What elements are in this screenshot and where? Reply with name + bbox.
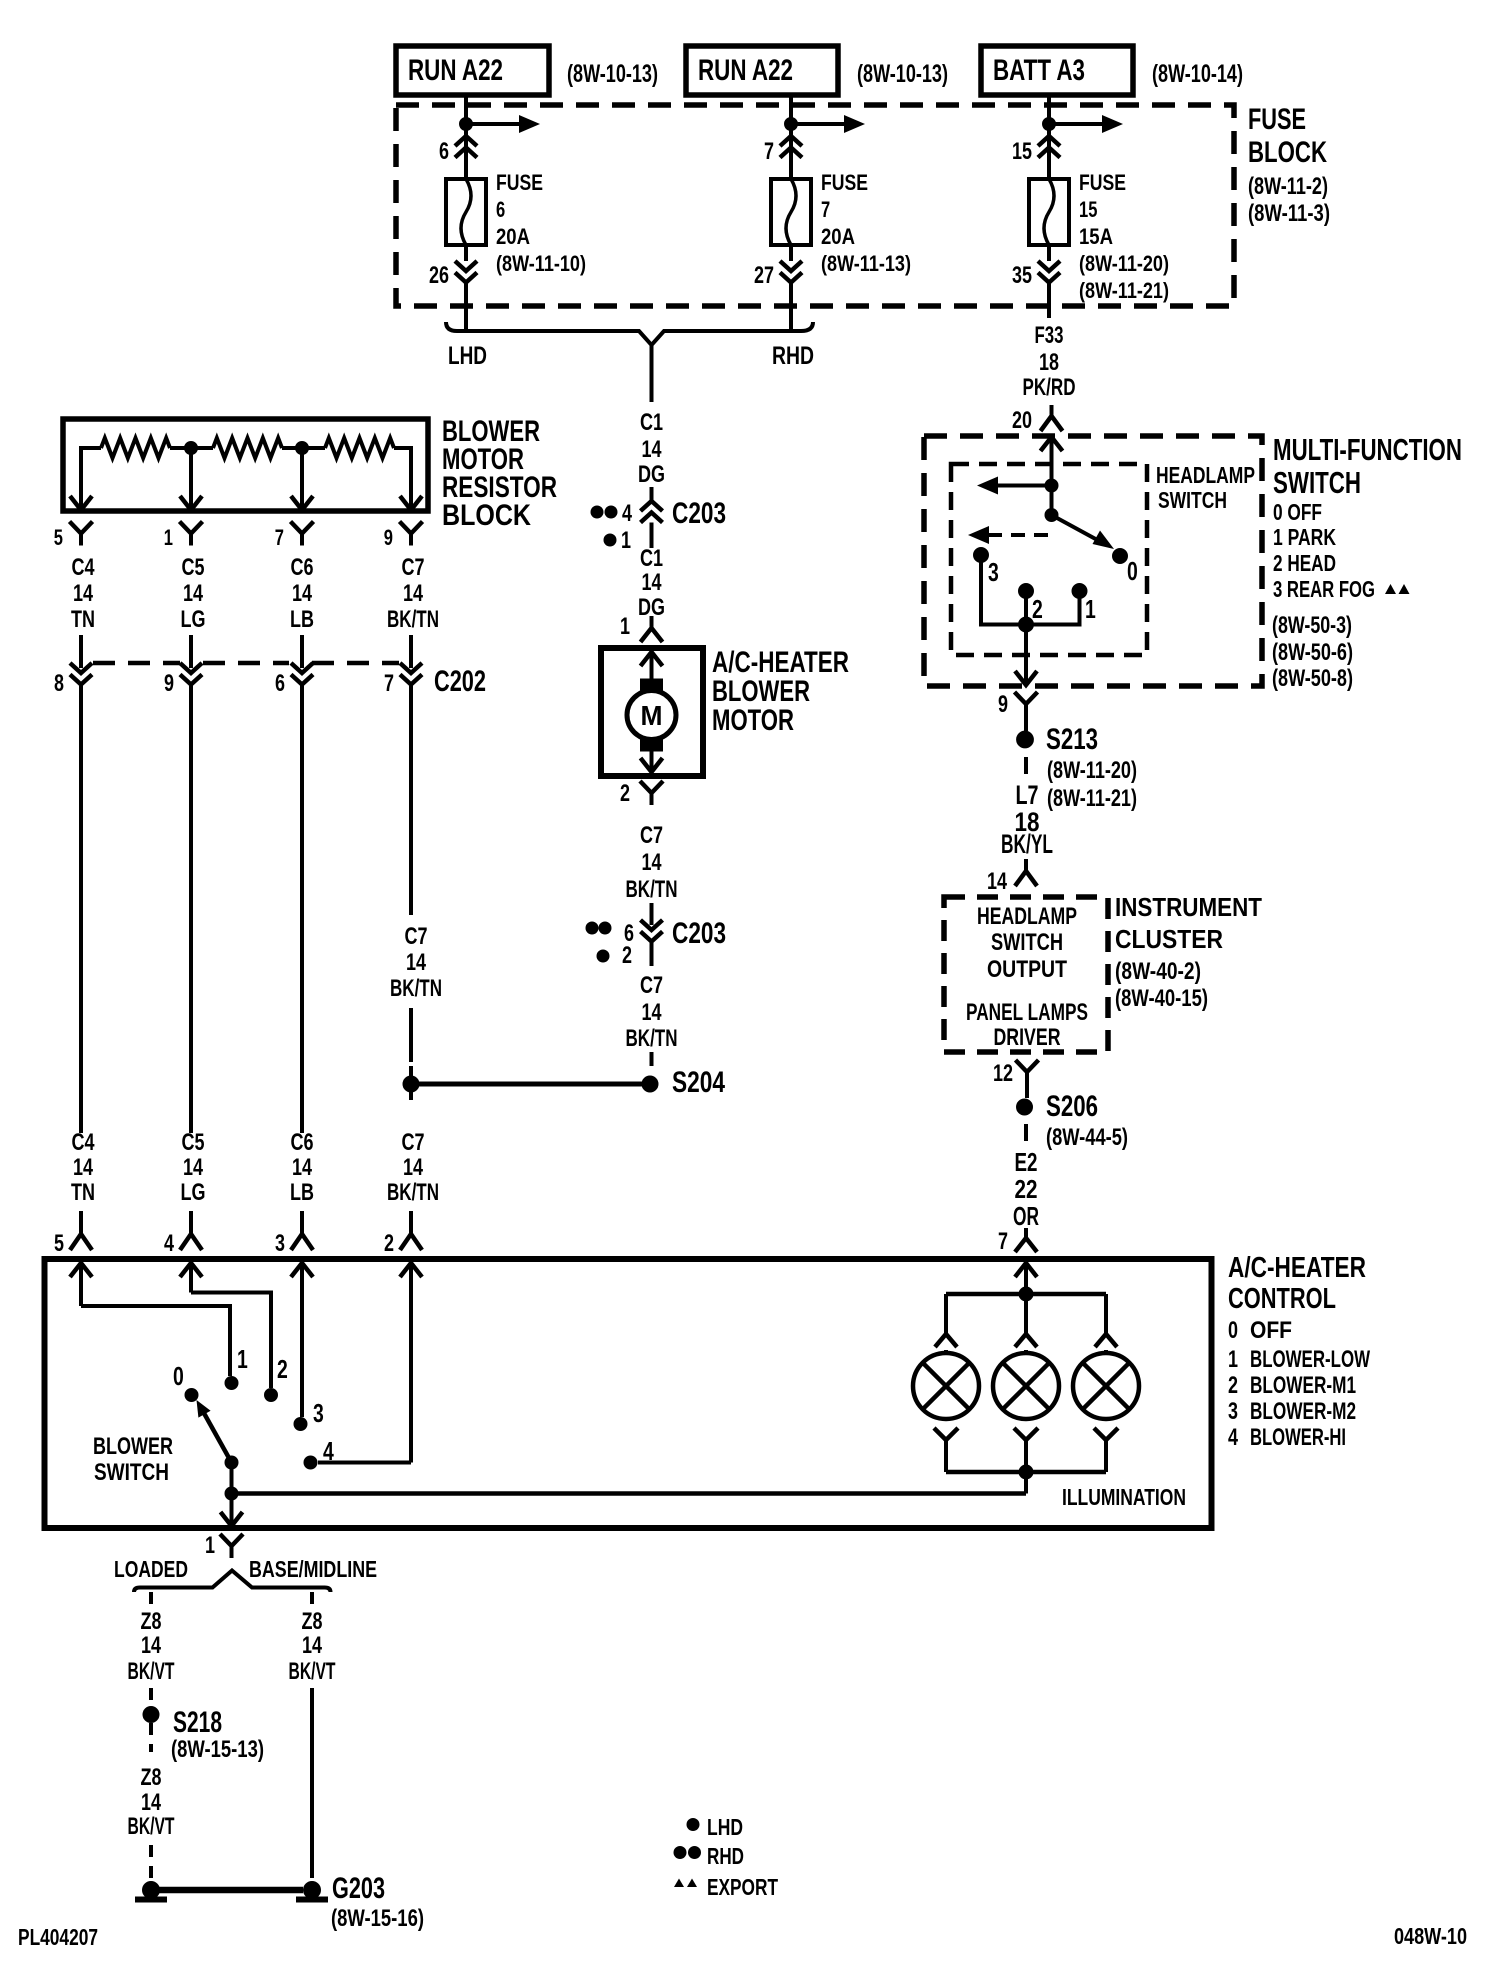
illumination lamp 1	[913, 1353, 979, 1419]
svg-text:FUSE: FUSE	[1248, 103, 1306, 136]
contact 3	[974, 548, 989, 563]
svg-text:2: 2	[1032, 594, 1043, 624]
svg-text:14: 14	[642, 849, 662, 876]
fuse block enclosure	[396, 105, 1234, 306]
svg-text:PANEL LAMPS: PANEL LAMPS	[966, 999, 1088, 1026]
connector pin 27 (fuse 7 bottom)	[780, 261, 802, 271]
pin 14 connector at instrument cluster	[1024, 859, 1028, 871]
svg-text:SWITCH: SWITCH	[94, 1459, 169, 1486]
svg-text:14: 14	[73, 580, 93, 607]
wire contact 2 to junction	[1024, 598, 1028, 625]
svg-text:7: 7	[998, 1228, 1008, 1255]
motor return arrow	[650, 751, 654, 772]
control entry arrow pin 7	[1015, 1263, 1037, 1277]
connector pin 26 (fuse 6 bottom)	[455, 261, 477, 271]
svg-text:EXPORT: EXPORT	[707, 1874, 778, 1900]
svg-text:(8W-40-15): (8W-40-15)	[1115, 985, 1208, 1012]
svg-text:5: 5	[54, 1230, 64, 1257]
resistor element 1	[101, 438, 170, 458]
svg-text:(8W-15-13): (8W-15-13)	[171, 1736, 264, 1763]
wire feed into fuse 6	[464, 95, 468, 179]
feed-through arrow at fuse 6	[466, 122, 521, 126]
blower switch contact 1	[225, 1377, 238, 1390]
control entry arrow pin 5	[70, 1263, 92, 1277]
svg-text:6: 6	[496, 197, 505, 222]
illumination lamp 3	[1073, 1353, 1139, 1419]
svg-text:C7: C7	[402, 1129, 425, 1156]
svg-text:0: 0	[1127, 556, 1138, 586]
wire TN column down	[79, 685, 83, 1134]
wire BK/TN column upper	[409, 685, 413, 916]
svg-text:BLOWER-LOW: BLOWER-LOW	[1250, 1346, 1370, 1373]
connector C202 pin 8	[70, 663, 92, 673]
power feed box RUN A22 (right)	[686, 46, 838, 95]
svg-text:2 HEAD: 2 HEAD	[1273, 550, 1336, 576]
svg-text:15: 15	[1012, 138, 1032, 165]
svg-text:RHD: RHD	[707, 1843, 744, 1869]
motor M symbol	[627, 691, 676, 740]
svg-text:RUN A22: RUN A22	[408, 54, 503, 87]
contact 0	[1113, 549, 1128, 564]
svg-text:3: 3	[988, 557, 999, 587]
blower switch contact 2	[265, 1389, 278, 1402]
svg-text:(8W-11-20): (8W-11-20)	[1079, 251, 1169, 276]
wire base/midline branch	[310, 1592, 314, 1604]
svg-text:C6: C6	[291, 554, 314, 581]
svg-text:PL404207: PL404207	[18, 1924, 98, 1950]
splice node above fuse 6	[460, 118, 473, 131]
svg-text:LHD: LHD	[448, 342, 487, 370]
junction node at S204 line	[403, 1076, 419, 1092]
wire LG column down	[189, 685, 193, 1134]
svg-text:BLOCK: BLOCK	[442, 499, 531, 532]
wire pin2 to contact 4	[318, 1461, 411, 1465]
blower motor resistor block box	[63, 419, 428, 511]
svg-text:C1: C1	[640, 545, 663, 572]
svg-text:2: 2	[1228, 1372, 1238, 1399]
svg-text:C7: C7	[640, 972, 663, 999]
svg-text:S213: S213	[1046, 723, 1098, 756]
wire contact 3 to junction	[981, 562, 1019, 625]
svg-text:LB: LB	[290, 606, 314, 633]
svg-text:LG: LG	[181, 1179, 206, 1206]
wire (dashed) below S206	[1024, 1124, 1028, 1141]
svg-text:(8W-10-13): (8W-10-13)	[857, 60, 948, 88]
svg-text:12: 12	[993, 1060, 1013, 1087]
wire (dashed) below S218	[149, 1723, 153, 1752]
svg-text:7: 7	[384, 670, 394, 697]
svg-text:L7: L7	[1016, 780, 1039, 810]
fuse 7 (20A)	[771, 179, 811, 245]
pin 5 connector (resistor block)	[70, 522, 82, 534]
headlamp switch inner box	[951, 464, 1147, 655]
svg-text:4: 4	[323, 1436, 334, 1466]
svg-text:14: 14	[302, 1632, 322, 1659]
svg-text:C202: C202	[434, 665, 486, 698]
svg-text:TN: TN	[71, 606, 95, 633]
wire pin5 to contact 1	[81, 1306, 230, 1376]
svg-text:OR: OR	[1013, 1201, 1039, 1231]
svg-text:BK/VT: BK/VT	[289, 1658, 336, 1685]
svg-text:20A: 20A	[496, 224, 530, 249]
svg-text:2: 2	[622, 942, 632, 969]
svg-text:6: 6	[275, 670, 285, 697]
wire into lower C203	[650, 903, 654, 925]
lamp feed junction	[1019, 1287, 1033, 1301]
svg-text:C5: C5	[182, 554, 205, 581]
contact 1	[1072, 584, 1087, 599]
wire (dashed) into S204	[650, 1052, 654, 1068]
svg-text:Z8: Z8	[141, 1764, 162, 1791]
svg-text:BK/TN: BK/TN	[387, 1179, 439, 1206]
wire out of fuse 7	[789, 245, 793, 261]
lamp 3 return	[1094, 1428, 1106, 1440]
switch node (headlamp feed)	[1045, 479, 1058, 492]
svg-text:Z8: Z8	[141, 1608, 162, 1635]
wire (dashed) loaded branch	[149, 1592, 153, 1604]
resistor element 3	[325, 438, 394, 458]
svg-text:27: 27	[754, 262, 774, 289]
svg-text:BK/YL: BK/YL	[1001, 829, 1053, 859]
svg-text:7: 7	[821, 197, 830, 222]
ground link wire	[159, 1887, 303, 1894]
svg-text:(8W-50-3): (8W-50-3)	[1272, 612, 1352, 639]
feed-through arrow at fuse 15	[1049, 122, 1104, 126]
blower switch output arrow	[221, 1512, 243, 1526]
svg-text:M: M	[641, 700, 663, 731]
svg-text:C1: C1	[640, 409, 663, 436]
svg-text:BLOWER-HI: BLOWER-HI	[1250, 1424, 1346, 1451]
svg-text:BK/TN: BK/TN	[387, 606, 439, 633]
svg-text:14: 14	[642, 436, 662, 463]
motor brush (top)	[641, 679, 663, 691]
svg-text:G203: G203	[332, 1872, 385, 1905]
svg-text:14: 14	[183, 580, 203, 607]
svg-text:RHD: RHD	[772, 342, 814, 370]
svg-text:3: 3	[313, 1398, 324, 1428]
svg-text:S204: S204	[672, 1066, 725, 1099]
svg-text:BLOWER-M2: BLOWER-M2	[1250, 1398, 1356, 1425]
connector C203 pins 6/2	[641, 920, 663, 930]
wire LB column down	[300, 685, 304, 1134]
connector pin 6 (fuse 6 top)	[455, 136, 477, 146]
svg-text:14: 14	[406, 949, 426, 976]
svg-text:7: 7	[764, 138, 774, 165]
pin 2 connector at blower motor	[640, 781, 652, 793]
resistor tap wires	[81, 446, 101, 450]
wire (dashed) to ground G203 left	[149, 1845, 153, 1878]
blower switch contact 0	[185, 1389, 198, 1402]
contact 2	[1019, 584, 1034, 599]
lamp 1 feed	[944, 1294, 948, 1336]
svg-text:(8W-11-21): (8W-11-21)	[1047, 785, 1137, 812]
instrument cluster enclosure	[944, 897, 1108, 1052]
power feed box RUN A22 (left)	[396, 46, 549, 95]
svg-text:FUSE: FUSE	[821, 170, 868, 195]
svg-text:S206: S206	[1046, 1090, 1098, 1123]
svg-text:2: 2	[277, 1354, 288, 1384]
legend RHD	[674, 1847, 686, 1859]
svg-text:C7: C7	[402, 554, 425, 581]
svg-text:BK/TN: BK/TN	[626, 876, 678, 903]
svg-text:CLUSTER: CLUSTER	[1115, 924, 1223, 954]
svg-text:BK/VT: BK/VT	[128, 1658, 175, 1685]
svg-text:1: 1	[237, 1344, 248, 1374]
A/C-heater blower motor box	[601, 648, 703, 776]
svg-text:(8W-15-16): (8W-15-16)	[331, 1905, 424, 1932]
svg-text:MOTOR: MOTOR	[712, 704, 794, 737]
fuse 6 (20A)	[446, 179, 486, 245]
illumination return wire	[232, 1491, 1027, 1496]
svg-text:3: 3	[1228, 1398, 1238, 1425]
svg-text:5: 5	[54, 525, 63, 550]
svg-text:1: 1	[620, 613, 630, 640]
svg-text:A/C-HEATER: A/C-HEATER	[1228, 1252, 1366, 1284]
blower switch wiper arm	[200, 1406, 232, 1463]
svg-text:1: 1	[1085, 594, 1096, 624]
svg-text:C6: C6	[291, 1129, 314, 1156]
svg-text:0: 0	[173, 1361, 184, 1391]
pin 9 connector	[1015, 692, 1027, 704]
splice S213	[1017, 731, 1034, 748]
legend EXPORT	[674, 1879, 684, 1888]
connector pin 15 (fuse 15 top)	[1038, 136, 1060, 146]
svg-text:4: 4	[622, 500, 632, 527]
connector C202 dashed link	[93, 661, 180, 666]
svg-text:OUTPUT: OUTPUT	[987, 956, 1067, 983]
svg-text:DRIVER: DRIVER	[994, 1024, 1061, 1051]
svg-text:20A: 20A	[821, 224, 855, 249]
svg-text:7: 7	[275, 525, 284, 550]
svg-text:15A: 15A	[1079, 224, 1113, 249]
resistor junction node left	[185, 442, 198, 455]
wire feed into fuse 7	[789, 95, 793, 179]
connector C202 pin 7	[400, 663, 422, 673]
resistor junction node right	[296, 442, 309, 455]
pin 9 connector (resistor block)	[400, 522, 412, 534]
ground G203 (right point)	[304, 1882, 321, 1899]
svg-text:1: 1	[205, 1532, 215, 1559]
wire out of fuse 6	[464, 245, 468, 261]
svg-text:048W-10: 048W-10	[1394, 1923, 1467, 1949]
connector C202 pin 6	[291, 663, 313, 673]
svg-text:C5: C5	[182, 1129, 205, 1156]
svg-text:9: 9	[384, 525, 393, 550]
LHD/RHD merge brace	[446, 322, 813, 345]
connector C203 pins 4/1	[641, 501, 663, 511]
svg-text:1: 1	[621, 527, 631, 554]
svg-text:14: 14	[141, 1632, 161, 1659]
svg-text:1: 1	[1228, 1346, 1238, 1373]
fuse 15 (15A)	[1029, 179, 1069, 245]
wire out of lower C203	[650, 942, 654, 967]
svg-text:3 REAR FOG: 3 REAR FOG	[1273, 576, 1375, 602]
wire from brace	[650, 345, 654, 402]
pin 12 connector	[1016, 1060, 1028, 1072]
pin 7 connector (resistor block)	[291, 522, 303, 534]
ground G203 (left point)	[143, 1882, 160, 1899]
svg-text:BK/TN: BK/TN	[390, 975, 442, 1002]
svg-text:BLOWER: BLOWER	[93, 1433, 173, 1460]
svg-text:2: 2	[384, 1230, 394, 1257]
pin 7 connector at A/C-heater control	[1024, 1228, 1028, 1238]
svg-text:14: 14	[292, 1154, 312, 1181]
connector C202 pin 9	[180, 663, 202, 673]
svg-text:14: 14	[141, 1789, 161, 1816]
svg-text:14: 14	[403, 580, 423, 607]
wire out of fuse 15	[1047, 245, 1051, 261]
wires into C202	[79, 635, 83, 668]
svg-text:6: 6	[439, 138, 449, 165]
svg-text:(8W-11-10): (8W-11-10)	[496, 251, 586, 276]
svg-text:(8W-40-2): (8W-40-2)	[1115, 958, 1201, 985]
svg-text:TN: TN	[71, 1179, 95, 1206]
svg-text:(8W-11-20): (8W-11-20)	[1047, 757, 1137, 784]
svg-text:9: 9	[164, 670, 174, 697]
blower switch contact 3	[294, 1418, 307, 1431]
svg-text:14: 14	[642, 999, 662, 1026]
pin 3 connector at control	[300, 1211, 304, 1234]
A/C-heater control box	[45, 1259, 1212, 1528]
svg-text:35: 35	[1012, 262, 1032, 289]
svg-text:C4: C4	[72, 554, 95, 581]
resistor element 2	[213, 438, 282, 458]
lamp feed bus	[946, 1292, 1106, 1297]
splice S206	[1017, 1099, 1033, 1115]
svg-text:4: 4	[164, 1230, 174, 1257]
wire (dashed) into S218	[149, 1688, 153, 1702]
svg-text:C203: C203	[672, 497, 726, 530]
blower switch pivot	[225, 1456, 238, 1469]
svg-text:BK/TN: BK/TN	[626, 1025, 678, 1052]
svg-text:22: 22	[1015, 1174, 1038, 1204]
pin 20 connector at multi-function switch	[1050, 405, 1054, 416]
svg-text:C7: C7	[640, 822, 663, 849]
svg-text:SWITCH: SWITCH	[1158, 487, 1227, 513]
svg-text:26: 26	[429, 262, 449, 289]
wire S204 to C7 column	[411, 1082, 650, 1087]
control entry arrow pin 3	[291, 1263, 313, 1277]
lamp return bus	[946, 1470, 1106, 1475]
svg-text:(8W-11-13): (8W-11-13)	[821, 251, 911, 276]
svg-text:FUSE: FUSE	[1079, 170, 1126, 195]
lamp 1 return	[934, 1428, 946, 1440]
svg-text:0 OFF: 0 OFF	[1273, 499, 1322, 525]
splice S218	[143, 1707, 159, 1723]
motor feed arrow	[641, 652, 663, 666]
svg-text:BLOWER-M1: BLOWER-M1	[1250, 1372, 1356, 1399]
svg-text:OFF: OFF	[1250, 1317, 1292, 1344]
illumination lamp 2	[993, 1353, 1059, 1419]
svg-text:14: 14	[292, 580, 312, 607]
svg-text:(8W-10-13): (8W-10-13)	[567, 60, 658, 88]
multi-function switch enclosure	[924, 436, 1262, 686]
wire BK/TN column to S204 junction	[409, 1008, 413, 1062]
headlamp output arrow	[997, 484, 1052, 488]
wiper pivot node	[1045, 509, 1058, 522]
svg-text:20: 20	[1012, 407, 1032, 434]
wire feed into fuse 15	[1047, 95, 1051, 179]
connector pin 35 (fuse 15 bottom)	[1038, 261, 1060, 271]
illumination return node	[225, 1487, 238, 1500]
pin 1 connector at blower motor	[650, 616, 654, 628]
svg-text:Z8: Z8	[302, 1608, 323, 1635]
svg-text:ILLUMINATION: ILLUMINATION	[1062, 1484, 1186, 1510]
svg-text:C203: C203	[672, 917, 726, 950]
lamp 3 feed	[1104, 1294, 1108, 1336]
control entry arrow pin 2	[400, 1263, 422, 1277]
wire into C203	[650, 487, 654, 501]
switch output junction	[1019, 617, 1034, 632]
svg-text:C4: C4	[72, 1129, 95, 1156]
LOADED/BASE-MIDLINE split brace	[134, 1571, 331, 1593]
svg-text:(8W-50-8): (8W-50-8)	[1272, 665, 1353, 692]
switch feed arrow	[1041, 437, 1063, 451]
svg-text:F33: F33	[1035, 322, 1064, 349]
svg-text:DG: DG	[638, 461, 665, 488]
svg-text:S218: S218	[173, 1706, 222, 1739]
svg-text:14: 14	[642, 569, 662, 596]
svg-text:9: 9	[998, 691, 1008, 718]
svg-text:(8W-11-3): (8W-11-3)	[1248, 200, 1330, 227]
svg-text:LB: LB	[290, 1179, 314, 1206]
svg-text:PK/RD: PK/RD	[1023, 374, 1076, 401]
svg-text:14: 14	[987, 868, 1007, 895]
svg-text:14: 14	[73, 1154, 93, 1181]
pin 2 connector at control	[409, 1211, 413, 1234]
lamp 2 return	[1014, 1428, 1026, 1440]
svg-text:2: 2	[620, 780, 630, 807]
svg-text:HEADLAMP: HEADLAMP	[1156, 462, 1255, 488]
svg-text:BASE/MIDLINE: BASE/MIDLINE	[249, 1556, 377, 1582]
svg-text:1 PARK: 1 PARK	[1273, 524, 1336, 550]
splice node above fuse 15	[1043, 118, 1056, 131]
pin 4 connector at control	[189, 1211, 193, 1234]
splice S204	[642, 1076, 658, 1092]
svg-text:(8W-11-21): (8W-11-21)	[1079, 278, 1169, 303]
svg-text:3: 3	[275, 1230, 285, 1257]
power feed box BATT A3	[981, 46, 1133, 95]
svg-text:FUSE: FUSE	[496, 170, 543, 195]
svg-text:BATT A3: BATT A3	[993, 54, 1085, 87]
svg-text:14: 14	[183, 1154, 203, 1181]
svg-text:BLOCK: BLOCK	[1248, 136, 1327, 169]
svg-text:8: 8	[54, 670, 64, 697]
svg-text:14: 14	[403, 1154, 423, 1181]
svg-text:SWITCH: SWITCH	[991, 929, 1063, 956]
pin 5 connector at control	[79, 1211, 83, 1234]
svg-text:BK/VT: BK/VT	[128, 1813, 175, 1840]
pin 1 connector (resistor block)	[180, 522, 192, 534]
svg-text:0: 0	[1228, 1317, 1238, 1344]
svg-text:CONTROL: CONTROL	[1228, 1283, 1336, 1315]
control entry arrow pin 4	[180, 1263, 202, 1277]
svg-text:LHD: LHD	[707, 1814, 743, 1840]
svg-text:(8W-50-6): (8W-50-6)	[1272, 639, 1353, 666]
splice node above fuse 7	[785, 118, 798, 131]
svg-text:C7: C7	[405, 923, 428, 950]
svg-text:(8W-10-14): (8W-10-14)	[1152, 60, 1243, 88]
svg-text:18: 18	[1039, 349, 1059, 376]
wire (dashed) below S213	[1024, 757, 1028, 774]
motor brush (bottom)	[641, 739, 663, 751]
svg-text:LG: LG	[181, 606, 206, 633]
switch output wire	[1024, 625, 1028, 686]
svg-text:HEADLAMP: HEADLAMP	[977, 903, 1077, 930]
svg-text:RUN A22: RUN A22	[698, 54, 793, 87]
lamp 2 feed	[1024, 1294, 1028, 1336]
svg-text:SWITCH: SWITCH	[1273, 465, 1361, 500]
